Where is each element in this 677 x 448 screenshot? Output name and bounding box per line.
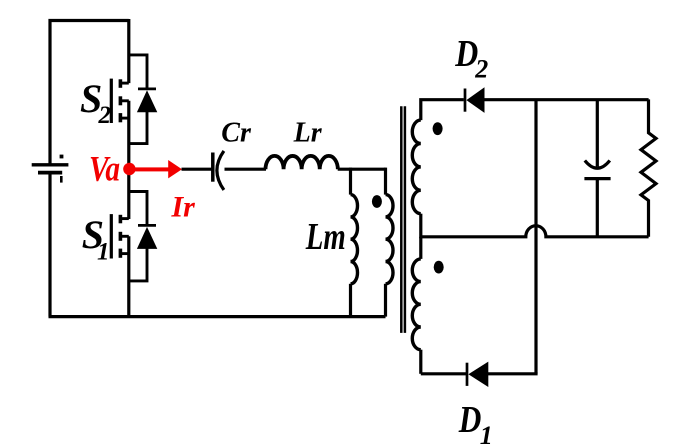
polarity dot primary bbox=[372, 195, 382, 208]
wire center tap bbox=[421, 226, 649, 237]
wire bridge leg middle bbox=[127, 101, 130, 219]
label D2 bbox=[454, 33, 488, 83]
transformer secondary bottom winding bbox=[412, 237, 421, 374]
label S1 bbox=[82, 212, 110, 266]
polarity dot secondary bottom bbox=[434, 261, 444, 274]
svg-text:Va: Va bbox=[89, 149, 120, 189]
wire output top rail bbox=[484, 98, 649, 101]
wire bridge leg upper bbox=[127, 19, 130, 83]
resistor RL bbox=[641, 99, 656, 236]
polarity dot secondary top bbox=[433, 122, 443, 135]
body diode of S2 bbox=[129, 55, 158, 144]
current arrow Ir bbox=[131, 160, 182, 178]
wire left leg lower bbox=[48, 175, 51, 317]
svg-text:Cr: Cr bbox=[221, 117, 252, 148]
inductor Lm bbox=[351, 168, 358, 317]
wire D1 right bbox=[487, 372, 538, 375]
wire D1 left bbox=[421, 372, 466, 375]
capacitor Cr bbox=[213, 151, 224, 190]
body diode of S1 bbox=[129, 192, 158, 281]
transistor S2 bbox=[111, 79, 129, 123]
svg-text:Ir: Ir bbox=[171, 191, 196, 224]
transformer secondary top winding bbox=[412, 100, 464, 239]
label D1 bbox=[458, 399, 493, 448]
transformer primary winding bbox=[386, 168, 394, 317]
capacitor Co bbox=[584, 99, 610, 236]
wire bottom rail bbox=[49, 315, 386, 318]
svg-text:1: 1 bbox=[480, 421, 493, 448]
wire Lr to transformer bbox=[338, 168, 386, 171]
transistor S1 bbox=[111, 214, 129, 258]
wire bridge leg lower bbox=[127, 236, 130, 316]
svg-text:D: D bbox=[458, 399, 481, 441]
diode D2 bbox=[465, 87, 485, 113]
diode D1 bbox=[467, 362, 488, 387]
svg-text:1: 1 bbox=[97, 239, 110, 266]
wire top rail bbox=[50, 21, 129, 166]
svg-text:Lm: Lm bbox=[305, 216, 346, 258]
node Va bbox=[123, 163, 135, 175]
svg-text:2: 2 bbox=[98, 102, 112, 129]
wire Cr to Lr bbox=[225, 168, 267, 171]
svg-text:2: 2 bbox=[474, 55, 488, 84]
label S2 bbox=[80, 76, 111, 129]
wire rectifier vertical bbox=[534, 100, 537, 374]
inductor Lr bbox=[266, 156, 338, 169]
battery V1 bbox=[32, 155, 69, 183]
wire Va to Cr bbox=[182, 168, 212, 171]
transformer core bbox=[401, 106, 405, 333]
svg-text:Lr: Lr bbox=[293, 117, 323, 148]
